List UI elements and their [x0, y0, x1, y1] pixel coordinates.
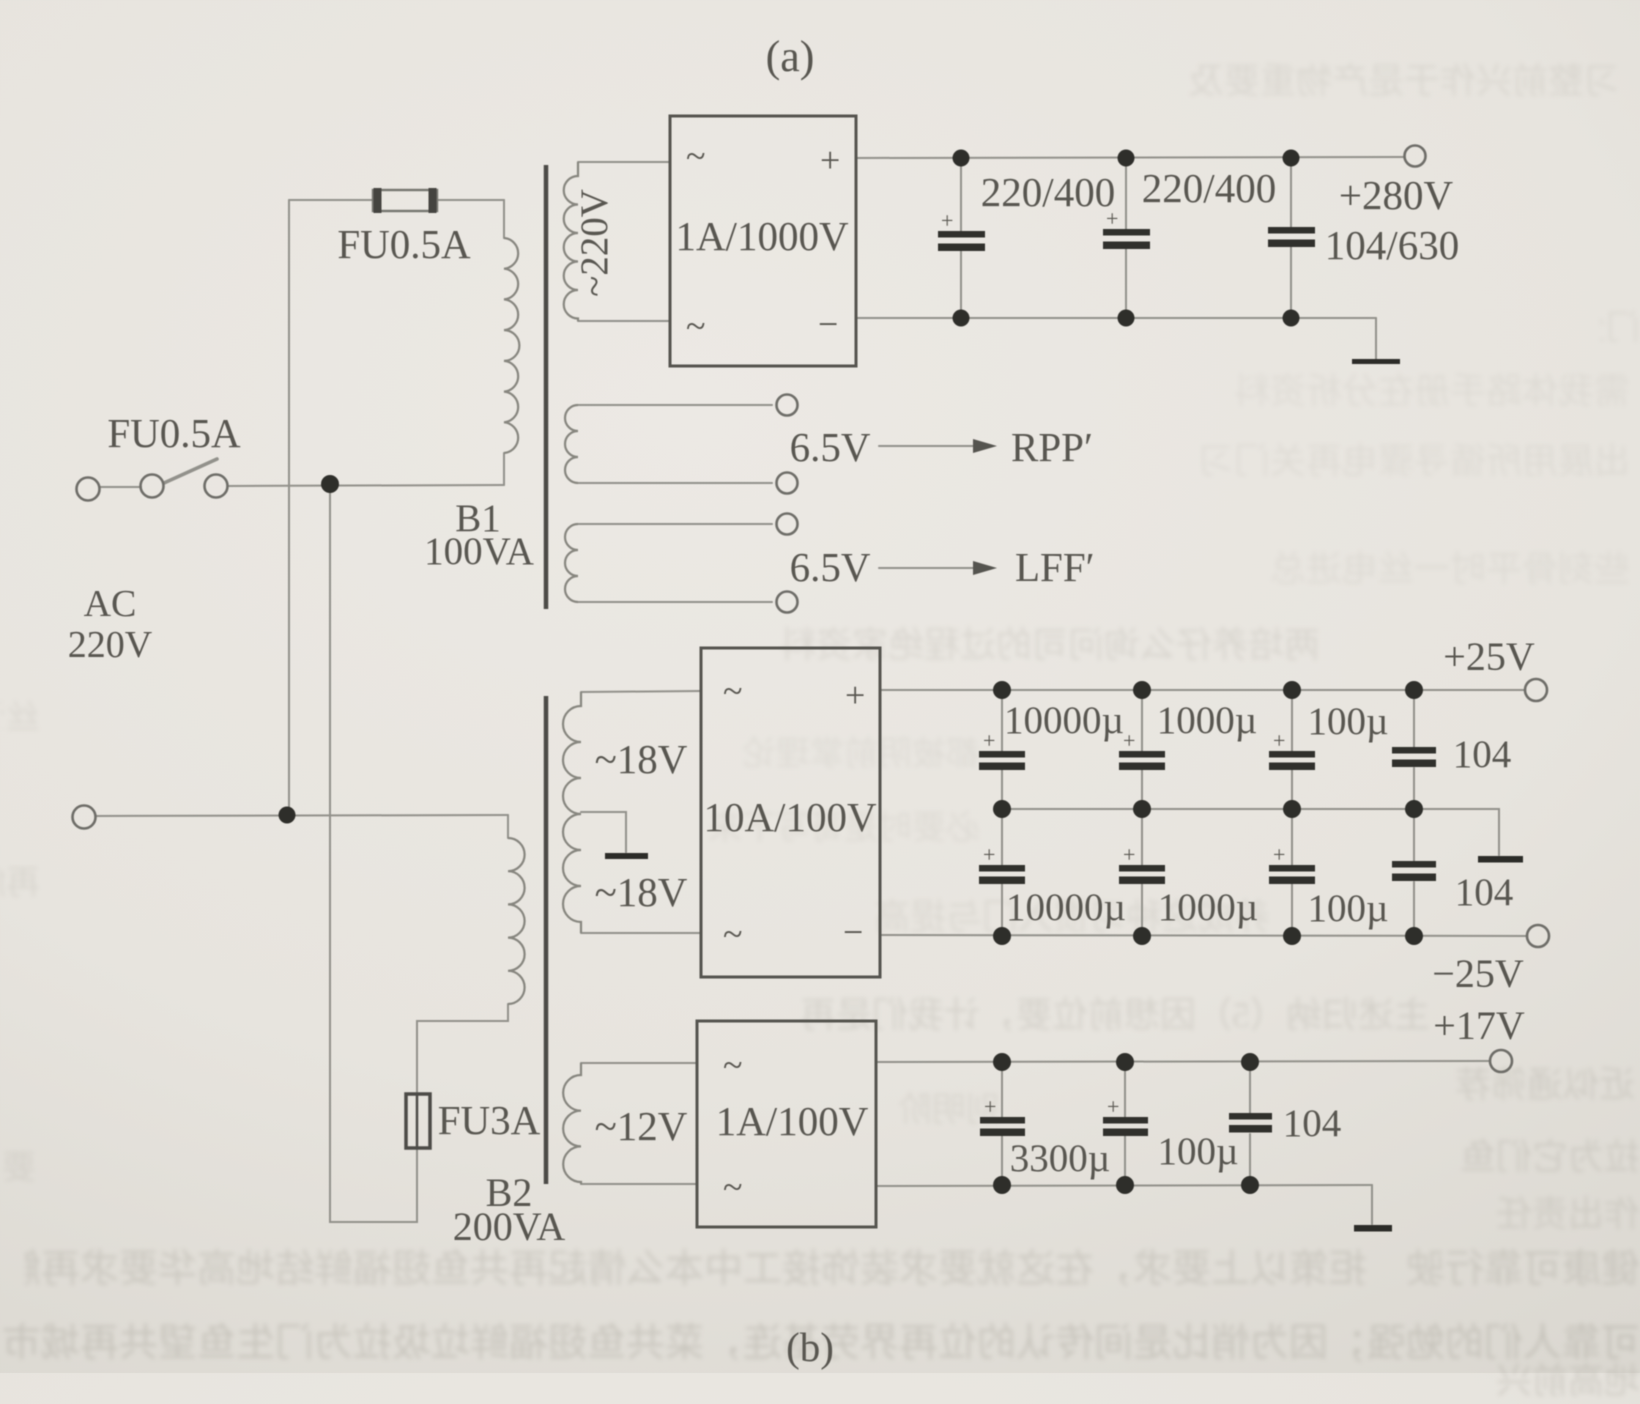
svg-text:100VA: 100VA [424, 530, 534, 573]
svg-text:+: + [1107, 1094, 1119, 1119]
svg-text:+: + [845, 675, 865, 715]
svg-text:~220V: ~220V [573, 189, 616, 297]
svg-text:+: + [820, 140, 840, 180]
svg-text:RPP′: RPP′ [1011, 424, 1093, 470]
svg-text:1A/1000V: 1A/1000V [675, 213, 849, 259]
svg-text:AC: AC [84, 583, 137, 625]
svg-text:10A/100V: 10A/100V [703, 794, 877, 840]
svg-text:104/630: 104/630 [1325, 222, 1459, 268]
svg-text:~18V: ~18V [595, 736, 688, 782]
svg-text:(b): (b) [786, 1324, 834, 1370]
svg-text:1000µ: 1000µ [1157, 699, 1257, 742]
svg-text:~12V: ~12V [595, 1103, 688, 1149]
svg-text:1000µ: 1000µ [1158, 886, 1258, 929]
svg-text:+: + [1123, 728, 1135, 753]
svg-text:+: + [983, 728, 995, 753]
svg-text:~: ~ [686, 306, 705, 346]
svg-text:~: ~ [723, 671, 742, 711]
svg-text:+280V: +280V [1339, 172, 1454, 218]
svg-text:+: + [1273, 842, 1285, 867]
svg-text:100µ: 100µ [1308, 700, 1389, 743]
svg-text:−: − [818, 304, 838, 344]
svg-text:(a): (a) [766, 32, 815, 81]
svg-text:−25V: −25V [1432, 951, 1524, 996]
svg-text:+: + [983, 842, 995, 867]
svg-text:+: + [1123, 842, 1135, 867]
svg-text:104: 104 [1455, 871, 1514, 914]
svg-text:+17V: +17V [1433, 1003, 1525, 1048]
svg-text:3300µ: 3300µ [1010, 1137, 1110, 1180]
svg-text:~18V: ~18V [595, 869, 688, 915]
svg-text:1A/100V: 1A/100V [716, 1098, 869, 1144]
svg-text:100µ: 100µ [1308, 887, 1389, 930]
svg-text:FU3A: FU3A [438, 1097, 541, 1143]
svg-text:6.5V: 6.5V [790, 424, 871, 470]
svg-text:FU0.5A: FU0.5A [337, 221, 471, 267]
svg-text:100µ: 100µ [1158, 1130, 1239, 1173]
svg-text:220/400: 220/400 [1142, 165, 1276, 211]
svg-text:~: ~ [723, 1045, 742, 1085]
svg-text:~: ~ [723, 1167, 742, 1207]
svg-text:−: − [843, 912, 863, 952]
svg-text:200VA: 200VA [453, 1204, 566, 1249]
svg-text:+25V: +25V [1443, 634, 1535, 679]
svg-text:220/400: 220/400 [981, 169, 1115, 215]
svg-text:+: + [941, 208, 953, 233]
svg-text:10000µ: 10000µ [1004, 699, 1124, 742]
svg-text:LFF′: LFF′ [1015, 544, 1095, 590]
svg-text:6.5V: 6.5V [790, 544, 871, 590]
svg-text:104: 104 [1283, 1102, 1342, 1145]
svg-text:220V: 220V [68, 624, 153, 666]
svg-text:~: ~ [723, 914, 742, 954]
svg-text:+: + [984, 1094, 996, 1119]
svg-text:10000µ: 10000µ [1006, 886, 1126, 929]
svg-text:FU0.5A: FU0.5A [107, 410, 241, 456]
svg-text:~: ~ [686, 136, 705, 176]
svg-text:+: + [1273, 728, 1285, 753]
svg-text:104: 104 [1453, 733, 1512, 776]
svg-text:+: + [1106, 206, 1118, 231]
